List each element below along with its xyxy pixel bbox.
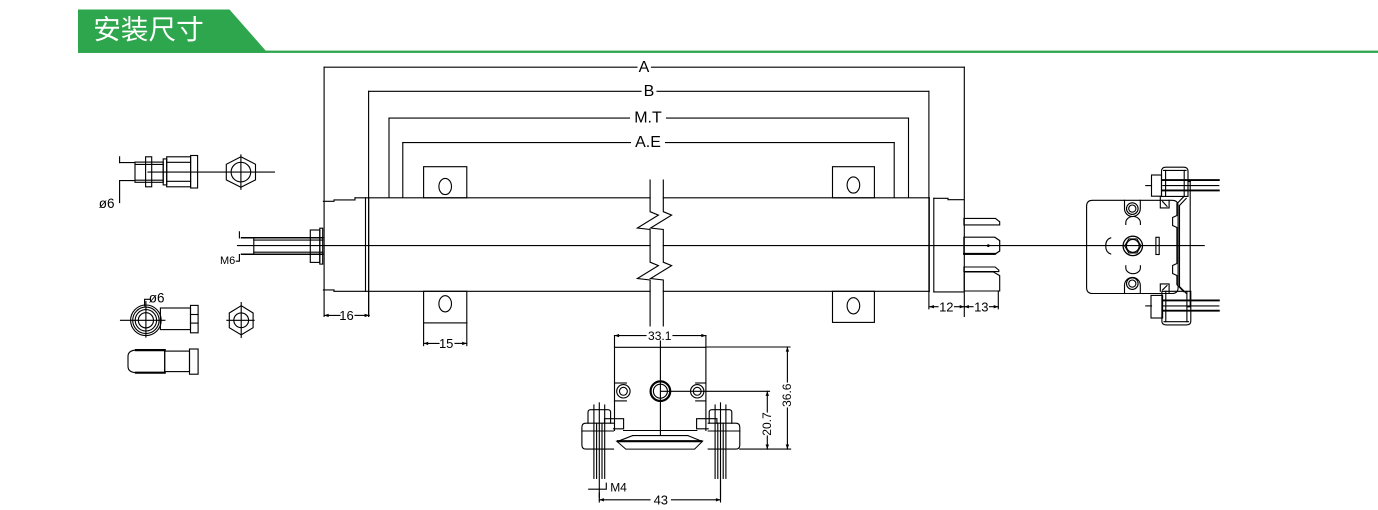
rod gland collar bbox=[310, 230, 320, 262]
dim 15 line bbox=[424, 342, 439, 344]
front right clamp bbox=[708, 423, 740, 449]
rod-end bearing rings bbox=[131, 305, 162, 336]
dim 13 right extension bbox=[997, 291, 999, 309]
dimension B line bbox=[369, 90, 641, 92]
dimension A.E extensions bbox=[402, 143, 404, 198]
dimension A line bbox=[324, 66, 637, 68]
svg-text:A.E: A.E bbox=[635, 134, 661, 151]
stud centerline bbox=[148, 171, 274, 173]
svg-text:M4: M4 bbox=[610, 481, 627, 495]
green title banner bbox=[78, 10, 268, 53]
front bottom extension line bbox=[740, 448, 791, 450]
svg-text:ø6: ø6 bbox=[99, 196, 115, 211]
body top line bbox=[355, 197, 650, 199]
front view bottom edges bbox=[624, 430, 697, 432]
svg-text:15: 15 bbox=[439, 336, 453, 351]
sleeve cap joint bbox=[164, 350, 166, 373]
break line right bbox=[651, 180, 672, 326]
front center bush bbox=[651, 381, 671, 401]
dim 12 line bbox=[929, 306, 938, 308]
rod-end flange bbox=[191, 305, 199, 332]
top-left tab slot bbox=[439, 178, 452, 194]
dimension M.T extensions bbox=[388, 118, 390, 197]
main centerline bbox=[238, 245, 651, 247]
front left hole notch bbox=[615, 382, 627, 384]
dim 36.6 line bbox=[786, 347, 788, 382]
svg-text:M6: M6 bbox=[220, 255, 235, 267]
dim 16 right extension bbox=[368, 291, 370, 316]
body bottom line bbox=[334, 290, 650, 292]
dim 43 extensions bbox=[598, 493, 600, 502]
green underline bbox=[78, 51, 1378, 53]
dim 33.1 extensions bbox=[614, 336, 616, 348]
svg-text:33.1: 33.1 bbox=[648, 329, 672, 343]
connector center hex bbox=[1125, 239, 1141, 253]
stud neck bbox=[163, 159, 167, 185]
rail left edge bbox=[1173, 197, 1184, 292]
connector top hole bbox=[1127, 203, 1139, 215]
front view body bbox=[615, 347, 706, 430]
top-right tab slot bbox=[847, 177, 860, 193]
svg-text:B: B bbox=[644, 83, 655, 100]
lower hex nut circle bbox=[234, 313, 249, 328]
dim 20.7 line bbox=[766, 391, 768, 412]
dimension A.E line bbox=[403, 142, 631, 144]
dimension A right extension bbox=[963, 67, 965, 316]
pin center bbox=[964, 237, 1000, 254]
connector body bbox=[1087, 200, 1179, 293]
dimension A left extension bbox=[323, 67, 325, 316]
rod-end ø6 leader bbox=[145, 299, 150, 306]
dimension B left extension bbox=[368, 91, 370, 316]
front right bolt bbox=[709, 410, 732, 424]
top-left mounting tab bbox=[424, 167, 467, 198]
sleeve cap thick edges bbox=[136, 349, 165, 351]
upper hex nut circle bbox=[231, 162, 251, 182]
svg-text:M.T: M.T bbox=[634, 110, 662, 127]
piston rod thread lines bbox=[254, 239, 323, 241]
front boot bbox=[617, 441, 703, 449]
rail right edge bbox=[1189, 182, 1191, 307]
connector top arc contact bbox=[1126, 217, 1141, 225]
left cap bottom step bbox=[323, 290, 334, 291]
left end cap lines bbox=[365, 198, 367, 291]
M6 leader top bbox=[238, 232, 240, 238]
dim 43 line bbox=[599, 499, 650, 501]
right end cap lines bbox=[928, 198, 930, 291]
rail inner edge bbox=[1180, 198, 1187, 293]
top-right mounting tab bbox=[833, 167, 875, 198]
sleeve barrel bbox=[165, 351, 190, 372]
connector center bush bbox=[1123, 236, 1142, 255]
connector top tab bbox=[1125, 200, 1141, 216]
svg-text:A: A bbox=[639, 59, 650, 76]
clamp bolt bottom bbox=[1151, 295, 1163, 318]
front left hole bbox=[617, 385, 630, 398]
break line left bbox=[637, 180, 658, 326]
stud body bbox=[167, 157, 191, 187]
upper hex nut vertical centerline bbox=[240, 155, 242, 189]
stud thread section bbox=[135, 162, 163, 182]
lower hex nut bbox=[229, 306, 253, 335]
front right hole bbox=[691, 385, 704, 398]
stud flange bbox=[191, 156, 198, 189]
rail top hook channel bbox=[1160, 196, 1169, 208]
pin center dot bbox=[987, 244, 990, 247]
banner text 安装尺寸 bbox=[95, 16, 202, 42]
clamp bolt top bbox=[1152, 175, 1162, 196]
sleeve rounded cap bbox=[128, 350, 165, 373]
svg-text:20.7: 20.7 bbox=[760, 412, 774, 436]
svg-text:13: 13 bbox=[974, 299, 988, 314]
dim 33.1 line bbox=[615, 335, 647, 337]
dimension B right extension bbox=[928, 91, 930, 308]
dim 15 extensions bbox=[423, 323, 425, 346]
stud ø6 leader bottom bbox=[120, 180, 135, 182]
dimension M.T line bbox=[389, 117, 630, 119]
front left clamp bbox=[582, 423, 614, 449]
pin blade top bbox=[964, 218, 1000, 225]
pin center bottom thick edge bbox=[964, 253, 995, 255]
front center line to 20.7 bbox=[661, 390, 770, 392]
dim 13 line bbox=[964, 306, 973, 308]
svg-text:16: 16 bbox=[339, 308, 353, 323]
left cap top steps bbox=[323, 198, 355, 202]
upper hex nut bbox=[226, 157, 255, 188]
connector left slot bbox=[1106, 238, 1111, 254]
front view center line bbox=[659, 341, 661, 435]
connector center hole bbox=[1126, 240, 1139, 253]
bottom-left mounting tab bbox=[424, 291, 467, 323]
right cap bottom edge bbox=[934, 291, 964, 293]
dim 16 line bbox=[324, 314, 340, 316]
stud ø6 leader top bbox=[119, 157, 121, 163]
front right hole notch bbox=[696, 382, 706, 384]
svg-text:43: 43 bbox=[654, 492, 668, 507]
lower hex nut crosshair bbox=[227, 319, 254, 321]
svg-text:12: 12 bbox=[939, 299, 953, 314]
connector bottom arc contact bbox=[1126, 266, 1141, 274]
dim 36.6 extension top bbox=[707, 346, 790, 348]
sleeve flange bbox=[190, 349, 199, 374]
front left bolt bbox=[588, 410, 611, 424]
label M4 leader bbox=[589, 483, 607, 489]
svg-text:36.6: 36.6 bbox=[780, 383, 794, 407]
bottom-right mounting tab bbox=[833, 291, 875, 322]
bottom-left tab slot bbox=[439, 296, 452, 312]
right cap top edge bbox=[934, 198, 964, 199]
piston rod outline bbox=[242, 237, 323, 239]
M6 leader bottom bbox=[236, 255, 239, 262]
svg-text:ø6: ø6 bbox=[149, 290, 165, 305]
bottom-right tab slot bbox=[847, 298, 860, 314]
pin housing bbox=[964, 272, 1000, 291]
connector right slot bbox=[1156, 237, 1159, 254]
rail bottom hook channel bbox=[1160, 284, 1169, 294]
stud jam nut bbox=[146, 157, 152, 187]
rod-end crosshair bbox=[121, 319, 165, 321]
connector bottom tab bbox=[1125, 277, 1141, 293]
rod-end shank bbox=[160, 308, 190, 330]
pin blade bottom bbox=[964, 267, 999, 272]
connector bottom hole bbox=[1127, 278, 1139, 290]
